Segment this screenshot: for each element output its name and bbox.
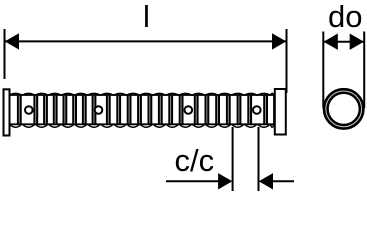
- groove rib at x=55.2: [53, 96, 58, 124]
- groove rib at x=19.3: [17, 96, 22, 124]
- groove rib at x=84.3: [82, 96, 87, 124]
- wavy scalloped bottom edge of roller rings: [9, 124, 274, 127]
- groove rib at x=118.7: [116, 96, 121, 124]
- dimension c/c right arrow line: [268, 180, 294, 182]
- groove rib at x=206.9: [205, 96, 210, 124]
- dimension line do: [323, 41, 364, 43]
- extension line left of dimension l: [4, 29, 6, 79]
- label c/c (groove pitch): [175, 143, 215, 178]
- label l (roller length): [143, 0, 150, 34]
- groove rib at x=217.6: [215, 96, 220, 124]
- extension line left of dimension do: [322, 32, 324, 109]
- groove rib at x=35.8: [33, 96, 38, 124]
- arrowhead pointing right at c/c left extension: [218, 173, 232, 189]
- arrowhead right of dimension do: [350, 34, 364, 50]
- tube cross-section seam between outer and inner circle: [326, 91, 362, 127]
- groove rib at x=129.1: [127, 96, 132, 124]
- arrowhead pointing left at c/c right extension: [259, 173, 273, 189]
- groove rib at x=139.5: [137, 96, 142, 124]
- groove rib at x=170.7: [168, 96, 173, 124]
- extension line right of dimension l: [286, 29, 288, 93]
- svg-text:c/c: c/c: [175, 143, 215, 178]
- groove rib at x=64.9: [63, 96, 68, 124]
- dimension line l: [5, 40, 287, 42]
- hole 1 in roller shell: [25, 106, 33, 114]
- dimension c/c left arrow line: [166, 180, 222, 182]
- arrowhead left of dimension do: [324, 34, 338, 50]
- extension line left of dimension c/c: [232, 127, 234, 191]
- arrowhead left of dimension l: [5, 33, 19, 49]
- svg-text:do: do: [328, 0, 362, 34]
- groove rib at x=108.3: [106, 96, 111, 124]
- groove rib at x=94.0: [92, 96, 97, 124]
- groove rib at x=149.9: [148, 96, 153, 124]
- right end cap of roller: [275, 89, 286, 135]
- extension line right of dimension do: [363, 32, 365, 109]
- left end cap of roller: [4, 89, 10, 135]
- groove rib at x=265.6: [263, 96, 268, 124]
- svg-text:l: l: [143, 0, 150, 34]
- roller body outline bottom line: [11, 123, 275, 125]
- roller body right edge: [273, 95, 275, 124]
- groove rib at x=196.2: [194, 96, 199, 124]
- label do (tube outer diameter): [328, 0, 362, 34]
- groove rib at x=239.0: [237, 96, 242, 124]
- groove rib at x=181.1: [179, 96, 184, 124]
- extension line right of dimension c/c: [258, 127, 260, 191]
- hole 3 in roller shell: [185, 106, 193, 114]
- groove rib at x=160.3: [158, 96, 163, 124]
- arrowhead right of dimension l: [272, 33, 286, 49]
- tube cross-section ring (outer + inner circle band): [326, 91, 362, 127]
- hole 2 in roller shell: [95, 106, 103, 114]
- wavy top edge of roller rings: [9, 93, 274, 95]
- hole 4 in roller shell: [253, 106, 261, 114]
- groove rib at x=74.6: [72, 96, 77, 124]
- roller body outline top line: [11, 94, 275, 96]
- groove rib at x=45.5: [43, 96, 48, 124]
- groove rib at x=249.7: [247, 96, 252, 124]
- groove rib at x=228.3: [226, 96, 231, 124]
